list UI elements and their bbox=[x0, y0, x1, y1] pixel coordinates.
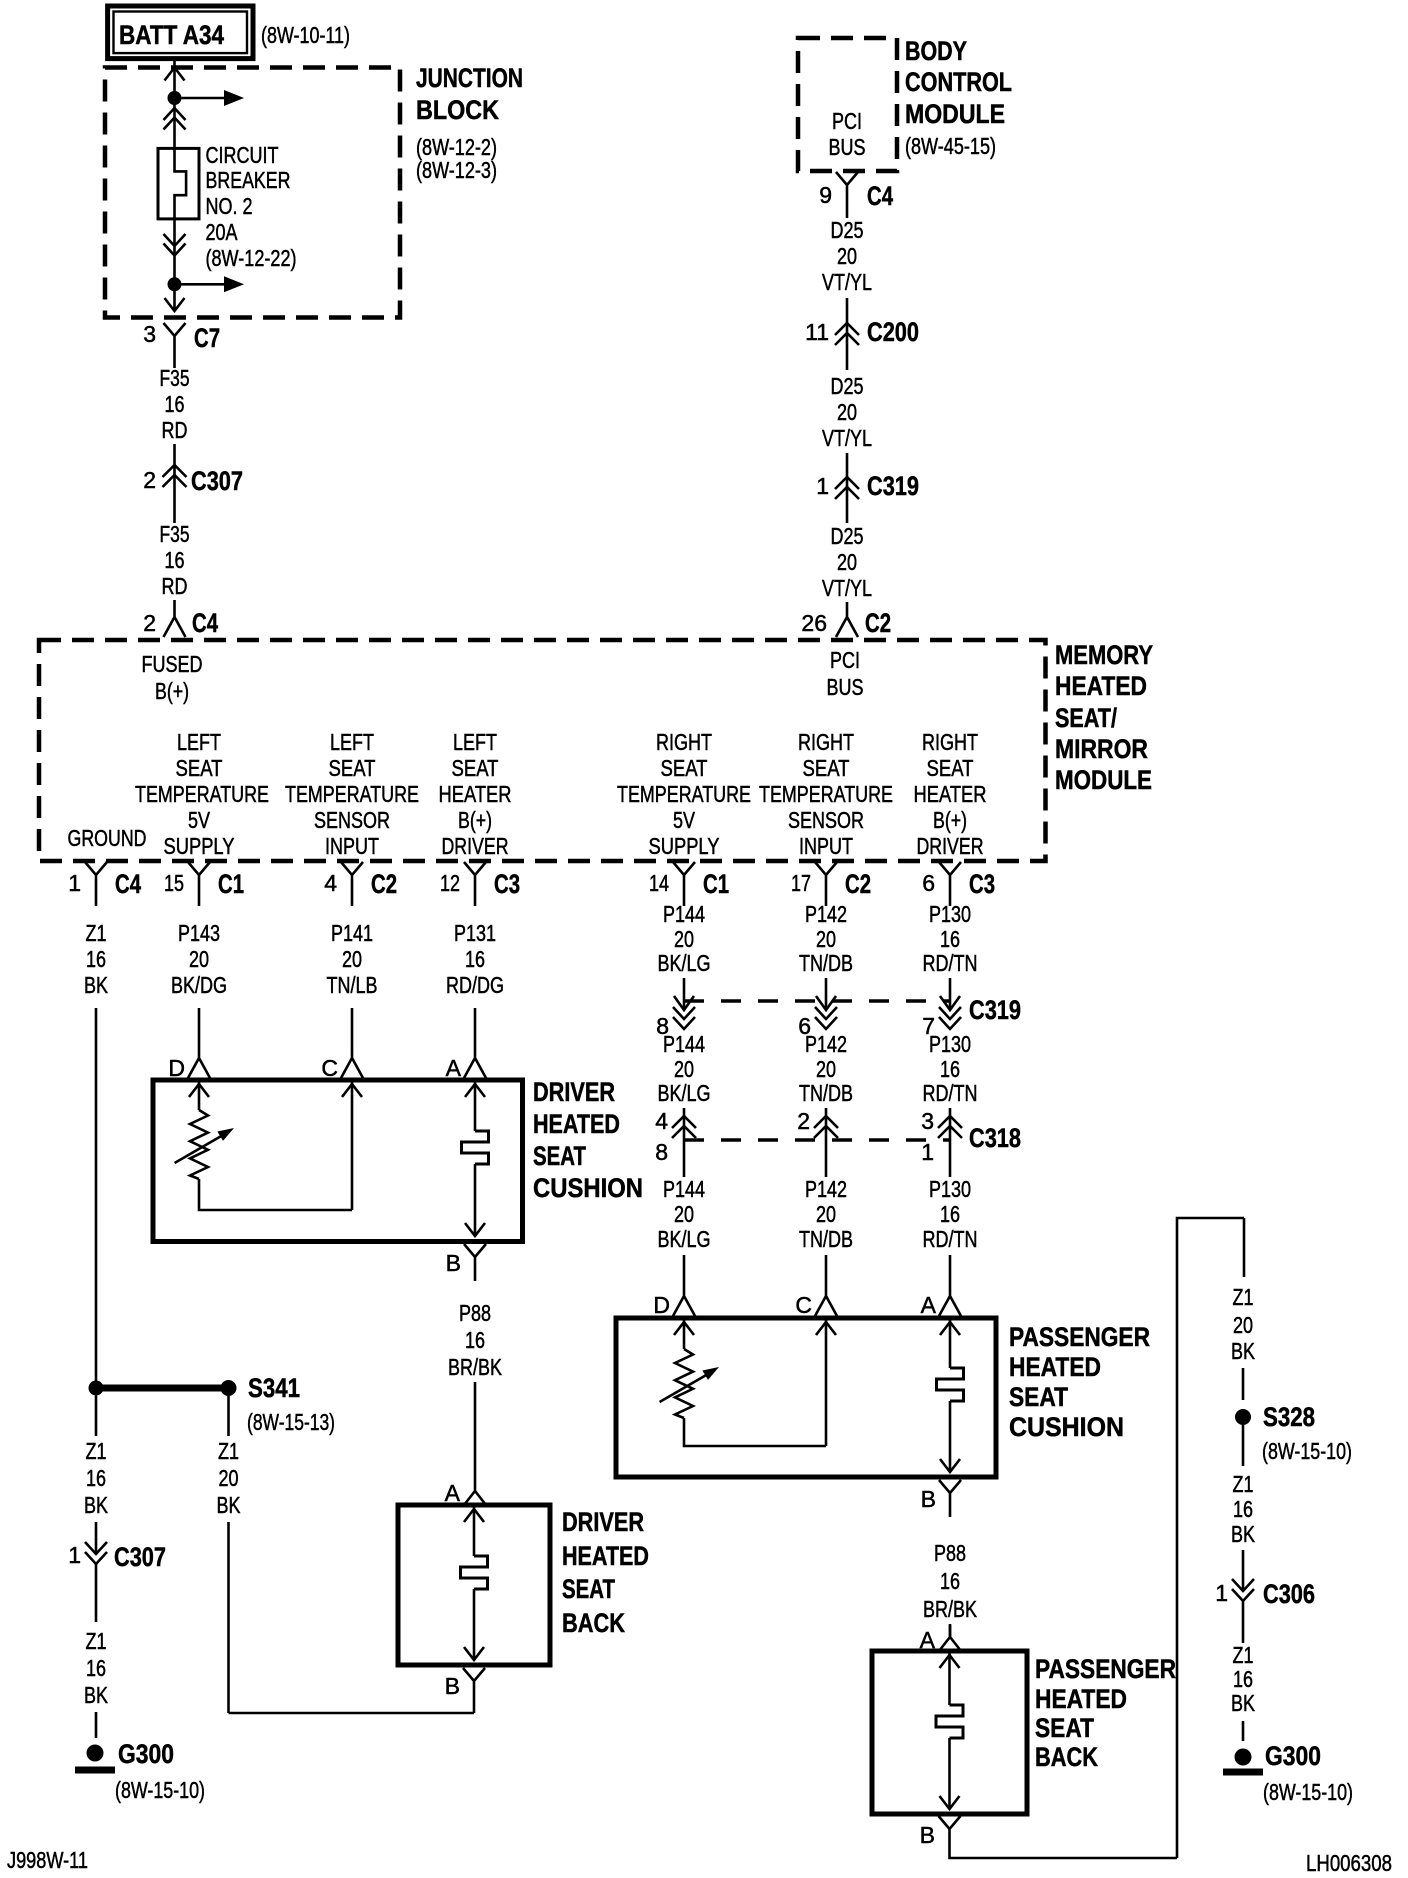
svg-text:D25: D25 bbox=[831, 523, 864, 549]
junction dot upper bbox=[168, 91, 182, 105]
connector C319 pin 6 bbox=[798, 996, 837, 1039]
connector C200 pin 11 bbox=[805, 298, 919, 370]
svg-text:9: 9 bbox=[819, 182, 832, 208]
svg-text:BR/BK: BR/BK bbox=[448, 1354, 503, 1380]
wire P142 20 TN/DB label 2 bbox=[799, 1031, 853, 1106]
svg-text:FUSED: FUSED bbox=[142, 651, 203, 677]
svg-text:PASSENGER: PASSENGER bbox=[1009, 1322, 1150, 1352]
svg-text:MODULE: MODULE bbox=[1055, 765, 1152, 795]
wire thermistor bottom to sensor return bbox=[199, 1179, 352, 1210]
connector C318 pins 3/1 bbox=[921, 1108, 1021, 1177]
heater element passenger back bbox=[936, 1705, 963, 1738]
svg-text:16: 16 bbox=[940, 926, 960, 952]
svg-text:16: 16 bbox=[86, 1655, 106, 1681]
svg-text:P88: P88 bbox=[459, 1300, 491, 1326]
svg-text:BK/LG: BK/LG bbox=[658, 1080, 711, 1106]
svg-text:DRIVER: DRIVER bbox=[917, 833, 984, 859]
connector C318 pin 2 bbox=[797, 1108, 838, 1177]
svg-text:G300: G300 bbox=[118, 1739, 174, 1769]
connector C307 pin 2 bbox=[143, 444, 243, 523]
svg-text:11: 11 bbox=[805, 319, 829, 345]
svg-text:LEFT: LEFT bbox=[177, 729, 221, 755]
svg-text:TN/DB: TN/DB bbox=[799, 1080, 853, 1106]
svg-text:INPUT: INPUT bbox=[325, 833, 379, 859]
junction dot lower bbox=[168, 277, 182, 291]
svg-text:D25: D25 bbox=[831, 217, 864, 243]
exit arrowhead B wire bbox=[465, 1223, 485, 1236]
svg-text:16: 16 bbox=[1233, 1666, 1253, 1692]
svg-text:SEAT: SEAT bbox=[533, 1141, 586, 1171]
wire ground column down to splice bbox=[95, 1008, 98, 1381]
svg-text:F35: F35 bbox=[160, 521, 190, 547]
svg-text:S328: S328 bbox=[1263, 1402, 1315, 1432]
svg-text:LEFT: LEFT bbox=[330, 729, 374, 755]
wire P142 20 TN/DB label bbox=[799, 901, 853, 976]
heater element driver back bbox=[461, 1556, 488, 1589]
wire P143 20 BK/DG label bbox=[171, 920, 227, 998]
svg-text:20A: 20A bbox=[206, 219, 239, 245]
svg-text:P141: P141 bbox=[331, 920, 373, 946]
svg-text:HEATER: HEATER bbox=[439, 781, 512, 807]
svg-text:4: 4 bbox=[324, 870, 337, 896]
svg-text:CUSHION: CUSHION bbox=[1009, 1412, 1124, 1442]
svg-text:(8W-15-10): (8W-15-10) bbox=[1262, 1438, 1352, 1464]
connector C318 pins 4/8 bbox=[655, 1108, 696, 1177]
svg-text:C4: C4 bbox=[115, 869, 141, 899]
svg-text:D: D bbox=[653, 1292, 670, 1318]
svg-text:VT/YL: VT/YL bbox=[822, 575, 872, 601]
circuit breaker element bbox=[175, 148, 187, 219]
svg-text:TEMPERATURE: TEMPERATURE bbox=[135, 781, 269, 807]
passenger heated seat cushion title bbox=[1009, 1322, 1150, 1442]
wire driver back B return to splice branch bbox=[229, 1712, 475, 1715]
wire C inside passenger cushion bbox=[825, 1318, 828, 1446]
svg-text:A: A bbox=[446, 1055, 462, 1081]
pin A driver cushion bbox=[446, 1046, 486, 1081]
svg-text:(8W-12-22): (8W-12-22) bbox=[206, 245, 297, 271]
svg-text:VT/YL: VT/YL bbox=[822, 425, 872, 451]
wire element to B exit passenger cushion bbox=[949, 1401, 952, 1472]
svg-text:RIGHT: RIGHT bbox=[922, 729, 978, 755]
svg-text:SEAT: SEAT bbox=[562, 1574, 615, 1604]
connector C4 pin 1 below module bbox=[68, 862, 141, 906]
svg-text:SENSOR: SENSOR bbox=[788, 807, 864, 833]
connector C2 pin 26 into module bbox=[801, 602, 891, 638]
connector C1 pin 14 below module bbox=[649, 862, 729, 906]
driver heated seat back box bbox=[398, 1505, 550, 1665]
connector C2 pin 17 below module bbox=[791, 862, 871, 906]
pin B driver seat back bbox=[445, 1668, 485, 1713]
svg-text:BREAKER: BREAKER bbox=[206, 167, 291, 193]
svg-text:20: 20 bbox=[189, 946, 209, 972]
svg-text:1: 1 bbox=[68, 870, 81, 896]
svg-text:8: 8 bbox=[655, 1139, 668, 1165]
svg-text:HEATED: HEATED bbox=[1009, 1352, 1101, 1382]
svg-text:S341: S341 bbox=[248, 1373, 300, 1403]
svg-text:RIGHT: RIGHT bbox=[656, 729, 712, 755]
wire below breaker bbox=[173, 219, 176, 311]
body control module dashed box bbox=[798, 38, 897, 171]
wire A to heater element bbox=[474, 1080, 477, 1131]
svg-text:VT/YL: VT/YL bbox=[822, 269, 872, 295]
pin B passenger cushion bbox=[921, 1480, 961, 1517]
svg-text:SENSOR: SENSOR bbox=[314, 807, 390, 833]
svg-text:BLOCK: BLOCK bbox=[416, 95, 499, 125]
svg-text:DRIVER: DRIVER bbox=[562, 1507, 644, 1537]
svg-text:RD/TN: RD/TN bbox=[923, 950, 978, 976]
svg-text:HEATED: HEATED bbox=[562, 1541, 649, 1571]
wire P88 16 BR/BK label driver bbox=[448, 1300, 503, 1380]
wire P130 stub to C319 bbox=[949, 978, 952, 1010]
svg-text:16: 16 bbox=[165, 391, 185, 417]
wire P141 20 TN/LB label bbox=[327, 920, 378, 998]
svg-text:CONTROL: CONTROL bbox=[905, 67, 1012, 97]
wire stub to ground G300 left bbox=[95, 1712, 98, 1738]
svg-text:16: 16 bbox=[940, 1568, 960, 1594]
svg-text:PCI: PCI bbox=[832, 108, 862, 134]
svg-text:2: 2 bbox=[143, 610, 156, 636]
in-line chevron pair down bbox=[164, 234, 186, 256]
wire P88 down to driver seat back bbox=[474, 1382, 477, 1477]
svg-text:B(+): B(+) bbox=[933, 807, 967, 833]
svg-text:5V: 5V bbox=[188, 807, 211, 833]
svg-text:3: 3 bbox=[143, 321, 156, 347]
wire S341 branch down bbox=[227, 1396, 230, 1436]
svg-text:DRIVER: DRIVER bbox=[533, 1077, 615, 1107]
wire P130 16 RD/TN label bbox=[923, 901, 978, 976]
wire element to B exit driver back bbox=[473, 1589, 476, 1660]
wire below S328 bbox=[1242, 1425, 1245, 1466]
svg-text:(8W-10-11): (8W-10-11) bbox=[261, 22, 350, 48]
pin A passenger seat back bbox=[920, 1625, 961, 1653]
svg-text:12: 12 bbox=[440, 870, 460, 896]
ground G300 left bbox=[75, 1739, 205, 1803]
circuit breaker labels bbox=[206, 142, 297, 271]
svg-text:16: 16 bbox=[940, 1056, 960, 1082]
svg-text:C319: C319 bbox=[969, 995, 1021, 1025]
svg-text:D: D bbox=[168, 1055, 185, 1081]
driver heated seat cushion title bbox=[533, 1077, 643, 1203]
passenger heated seat back title bbox=[1035, 1654, 1176, 1772]
entry arrowhead driver back bbox=[464, 1509, 484, 1522]
svg-text:(8W-15-13): (8W-15-13) bbox=[247, 1409, 335, 1435]
svg-text:A: A bbox=[445, 1480, 461, 1506]
svg-text:C7: C7 bbox=[194, 323, 220, 353]
entry arrowhead A wire bbox=[465, 1084, 485, 1097]
body control module title bbox=[905, 36, 1012, 159]
svg-text:20: 20 bbox=[674, 1201, 694, 1227]
svg-text:TN/DB: TN/DB bbox=[799, 1226, 853, 1252]
wire Z1 20 BK label S341 branch bbox=[217, 1438, 242, 1518]
svg-text:P142: P142 bbox=[805, 901, 847, 927]
svg-text:P130: P130 bbox=[929, 1176, 971, 1202]
svg-text:16: 16 bbox=[1233, 1496, 1253, 1522]
svg-text:1: 1 bbox=[1215, 1580, 1228, 1606]
module internal label RIGHT SEAT TEMPERATURE SENSOR INPUT bbox=[759, 729, 893, 859]
junction dot ground column bbox=[89, 1381, 104, 1396]
driver heated seat cushion box bbox=[153, 1080, 523, 1242]
svg-text:BK: BK bbox=[84, 1492, 109, 1518]
in-line chevron pair up below dot bbox=[164, 108, 186, 130]
circuit breaker no. 2 box bbox=[158, 148, 199, 219]
wire F35 16 RD upper label bbox=[160, 359, 190, 443]
junction block title bbox=[416, 63, 523, 183]
wire Z1 16 BK label right bottom bbox=[1231, 1642, 1256, 1716]
splice bus wire to S341 bbox=[96, 1385, 229, 1392]
svg-text:C319: C319 bbox=[867, 471, 919, 501]
wire Z1 16 BK ground wire label bbox=[84, 920, 109, 998]
passenger heated seat back box bbox=[872, 1651, 1027, 1814]
wire D25 20 VT/YL label 2 bbox=[822, 373, 872, 451]
svg-text:BK: BK bbox=[1231, 1521, 1256, 1547]
svg-text:BODY: BODY bbox=[905, 36, 967, 66]
svg-text:20: 20 bbox=[1233, 1312, 1253, 1338]
module internal label LEFT SEAT TEMPERATURE 5V SUPPLY bbox=[135, 729, 269, 859]
svg-text:20: 20 bbox=[837, 549, 857, 575]
svg-text:20: 20 bbox=[219, 1465, 239, 1491]
svg-text:BUS: BUS bbox=[829, 134, 866, 160]
svg-text:Z1: Z1 bbox=[218, 1438, 239, 1464]
svg-text:HEATED: HEATED bbox=[533, 1109, 620, 1139]
pin C driver cushion bbox=[321, 1046, 363, 1081]
connector C306 pin 1 bbox=[1215, 1550, 1315, 1643]
svg-text:HEATER: HEATER bbox=[914, 781, 987, 807]
pin C passenger cushion bbox=[795, 1284, 837, 1318]
feed arrow right upper bbox=[182, 90, 245, 106]
svg-text:BK: BK bbox=[84, 1682, 109, 1708]
svg-text:P144: P144 bbox=[663, 901, 705, 927]
svg-text:BATT A34: BATT A34 bbox=[119, 20, 224, 50]
svg-text:C2: C2 bbox=[371, 869, 397, 899]
svg-text:16: 16 bbox=[465, 946, 485, 972]
svg-text:MEMORY: MEMORY bbox=[1055, 640, 1153, 670]
svg-text:4: 4 bbox=[655, 1108, 668, 1134]
svg-text:20: 20 bbox=[816, 1056, 836, 1082]
svg-text:SEAT: SEAT bbox=[1009, 1382, 1068, 1412]
svg-text:SEAT: SEAT bbox=[1035, 1713, 1094, 1743]
svg-text:D25: D25 bbox=[831, 373, 864, 399]
svg-text:1: 1 bbox=[816, 473, 829, 499]
ground G300 right bbox=[1223, 1741, 1353, 1805]
svg-text:Z1: Z1 bbox=[1233, 1642, 1254, 1668]
svg-text:15: 15 bbox=[164, 870, 184, 896]
svg-text:BK/LG: BK/LG bbox=[658, 1226, 711, 1252]
svg-text:SEAT: SEAT bbox=[176, 755, 223, 781]
connector C307 pin 1 bbox=[68, 1522, 166, 1622]
svg-text:BK/DG: BK/DG bbox=[171, 972, 227, 998]
feed arrow right lower bbox=[182, 276, 245, 292]
svg-text:Z1: Z1 bbox=[1233, 1471, 1254, 1497]
splice S341 bbox=[221, 1373, 336, 1435]
svg-text:(8W-15-10): (8W-15-10) bbox=[1263, 1779, 1353, 1805]
module title MEMORY HEATED SEAT/MIRROR MODULE bbox=[1055, 640, 1153, 795]
svg-text:16: 16 bbox=[465, 1327, 485, 1353]
svg-text:C318: C318 bbox=[969, 1123, 1021, 1153]
pin A driver seat back bbox=[445, 1477, 486, 1506]
wire D inside cushion bbox=[198, 1080, 201, 1110]
svg-text:C200: C200 bbox=[867, 317, 919, 347]
dashed link line connector C319 bbox=[684, 999, 950, 1003]
svg-text:BACK: BACK bbox=[562, 1608, 625, 1638]
pin D driver cushion bbox=[168, 1046, 210, 1081]
entry arrowhead C wire passenger bbox=[816, 1322, 836, 1335]
svg-text:1: 1 bbox=[68, 1542, 81, 1568]
svg-text:14: 14 bbox=[649, 870, 669, 896]
wire thermistor bottom to sensor return passenger bbox=[684, 1418, 826, 1446]
wire P144 down to passenger cushion bbox=[683, 1255, 686, 1284]
svg-text:P143: P143 bbox=[178, 920, 220, 946]
module internal label LEFT SEAT HEATER B(+) DRIVER bbox=[439, 729, 512, 859]
wire D25 20 VT/YL label 1 bbox=[822, 208, 872, 295]
svg-text:C2: C2 bbox=[865, 608, 891, 638]
svg-text:C307: C307 bbox=[114, 1542, 166, 1572]
svg-text:16: 16 bbox=[86, 1465, 106, 1491]
wire P131 16 RD/DG label bbox=[446, 920, 504, 998]
svg-text:Z1: Z1 bbox=[86, 1438, 107, 1464]
svg-text:C1: C1 bbox=[703, 869, 729, 899]
svg-text:17: 17 bbox=[791, 870, 811, 896]
svg-text:SEAT: SEAT bbox=[452, 755, 499, 781]
svg-text:BK: BK bbox=[217, 1492, 242, 1518]
svg-text:LEFT: LEFT bbox=[453, 729, 497, 755]
wire stub down to Z1 label bbox=[1243, 1218, 1246, 1277]
svg-text:G300: G300 bbox=[1265, 1741, 1321, 1771]
svg-text:BR/BK: BR/BK bbox=[923, 1596, 978, 1622]
svg-text:PASSENGER: PASSENGER bbox=[1035, 1654, 1176, 1684]
wire P130 16 RD/TN label 3 bbox=[923, 1176, 978, 1252]
wire P144 20 BK/LG label 2 bbox=[658, 1031, 711, 1106]
wire S341 branch to driver back B bbox=[227, 1522, 230, 1713]
pin B driver cushion bbox=[446, 1244, 486, 1281]
svg-text:(8W-12-3): (8W-12-3) bbox=[416, 157, 497, 183]
wire A to element passenger back bbox=[948, 1651, 951, 1705]
svg-text:20: 20 bbox=[837, 399, 857, 425]
dashed link line connector C318 bbox=[684, 1138, 950, 1142]
svg-text:LH006308: LH006308 bbox=[1306, 1850, 1392, 1876]
exit arrowhead driver back bbox=[464, 1647, 484, 1660]
body control module internal label PCI BUS bbox=[829, 108, 866, 160]
driver heated seat back title bbox=[562, 1507, 649, 1638]
wire P142 down to passenger cushion bbox=[825, 1255, 828, 1284]
wire F35 16 RD lower label bbox=[160, 521, 190, 599]
svg-text:BACK: BACK bbox=[1035, 1742, 1098, 1772]
svg-text:C307: C307 bbox=[191, 466, 243, 496]
svg-text:2: 2 bbox=[797, 1108, 810, 1134]
svg-text:B: B bbox=[921, 1486, 936, 1512]
svg-text:TEMPERATURE: TEMPERATURE bbox=[285, 781, 419, 807]
svg-text:20: 20 bbox=[837, 243, 857, 269]
svg-text:(8W-15-10): (8W-15-10) bbox=[115, 1777, 205, 1803]
svg-text:5V: 5V bbox=[673, 807, 696, 833]
svg-text:PCI: PCI bbox=[830, 647, 860, 673]
svg-text:P130: P130 bbox=[929, 901, 971, 927]
svg-text:20: 20 bbox=[816, 1201, 836, 1227]
svg-text:BK: BK bbox=[1231, 1690, 1256, 1716]
svg-text:C: C bbox=[321, 1055, 338, 1081]
wire D inside passenger cushion bbox=[683, 1318, 686, 1349]
connector C1 pin 15 below module bbox=[164, 862, 244, 906]
svg-text:RD/TN: RD/TN bbox=[923, 1080, 978, 1106]
svg-text:BUS: BUS bbox=[827, 674, 864, 700]
connector C4 pin 2 into module bbox=[143, 600, 218, 638]
connector C3 pin 12 below module bbox=[440, 862, 520, 906]
connector C2 pin 4 below module bbox=[324, 862, 397, 906]
svg-text:DRIVER: DRIVER bbox=[442, 833, 509, 859]
svg-text:C4: C4 bbox=[192, 608, 218, 638]
wire A to element driver back bbox=[473, 1505, 476, 1556]
exit arrowhead passenger back bbox=[940, 1796, 960, 1809]
connector C319 pin 8 bbox=[656, 996, 695, 1039]
exit arrowhead down at junction block border bbox=[165, 298, 185, 311]
svg-text:B: B bbox=[446, 1250, 461, 1276]
svg-text:16: 16 bbox=[940, 1201, 960, 1227]
svg-text:1: 1 bbox=[921, 1139, 934, 1165]
connector C319 pin 7 bbox=[922, 995, 1021, 1039]
svg-text:MODULE: MODULE bbox=[905, 99, 1005, 129]
wire A to heater element passenger cushion bbox=[949, 1318, 952, 1368]
wire below ground dot bbox=[95, 1396, 98, 1437]
wire element to B exit bbox=[474, 1164, 477, 1236]
wire stub to ground G300 right bbox=[1242, 1721, 1245, 1741]
wire P88 16 BR/BK label passenger bbox=[923, 1540, 978, 1622]
svg-text:SEAT: SEAT bbox=[803, 755, 850, 781]
svg-text:TN/LB: TN/LB bbox=[327, 972, 378, 998]
svg-text:A: A bbox=[921, 1292, 937, 1318]
module internal label PCI BUS bbox=[827, 647, 864, 700]
wire P143 down to driver cushion bbox=[198, 1008, 201, 1046]
svg-text:BK: BK bbox=[1231, 1338, 1256, 1364]
wire P144 stub to C319 bbox=[683, 978, 686, 1010]
svg-text:MIRROR: MIRROR bbox=[1055, 734, 1148, 764]
passenger heated seat cushion box bbox=[616, 1318, 996, 1477]
svg-text:C1: C1 bbox=[218, 869, 244, 899]
heater element passenger cushion bbox=[937, 1368, 964, 1401]
wire P131 down to driver cushion bbox=[474, 1008, 477, 1046]
svg-text:(8W-45-15): (8W-45-15) bbox=[905, 133, 996, 159]
module internal label RIGHT SEAT TEMPERATURE 5V SUPPLY bbox=[617, 729, 751, 859]
svg-text:RD: RD bbox=[162, 573, 188, 599]
svg-text:P144: P144 bbox=[663, 1031, 705, 1057]
module internal label LEFT SEAT TEMPERATURE SENSOR INPUT bbox=[285, 729, 419, 859]
svg-text:RD: RD bbox=[162, 417, 188, 443]
svg-text:26: 26 bbox=[801, 610, 827, 636]
svg-text:6: 6 bbox=[922, 870, 935, 896]
wire Z1 16 BK label left bottom bbox=[84, 1628, 109, 1708]
svg-text:C4: C4 bbox=[867, 181, 893, 211]
svg-text:Z1: Z1 bbox=[86, 920, 107, 946]
svg-text:P131: P131 bbox=[454, 920, 496, 946]
svg-text:F35: F35 bbox=[160, 365, 190, 391]
pin A passenger cushion bbox=[921, 1284, 961, 1318]
connector C319 pin 1 bbox=[816, 453, 919, 523]
wire P141 down to driver cushion bbox=[351, 1008, 354, 1046]
wire D25 20 VT/YL label 3 bbox=[822, 523, 872, 601]
svg-text:RD/DG: RD/DG bbox=[446, 972, 504, 998]
svg-text:16: 16 bbox=[165, 547, 185, 573]
battery source box BATT A34 bbox=[108, 6, 253, 59]
exit arrowhead B passenger cushion bbox=[940, 1459, 960, 1472]
svg-text:P88: P88 bbox=[934, 1540, 966, 1566]
svg-text:Z1: Z1 bbox=[86, 1628, 107, 1654]
entry arrowhead up at junction block border bbox=[165, 68, 185, 81]
connector C3 pin 6 below module bbox=[922, 862, 995, 906]
svg-text:20: 20 bbox=[816, 926, 836, 952]
wire P130 16 RD/TN label 2 bbox=[923, 1031, 978, 1106]
svg-text:2: 2 bbox=[143, 467, 156, 493]
svg-text:RD/TN: RD/TN bbox=[923, 1226, 978, 1252]
wire element to B exit passenger back bbox=[948, 1738, 951, 1809]
svg-text:20: 20 bbox=[674, 926, 694, 952]
